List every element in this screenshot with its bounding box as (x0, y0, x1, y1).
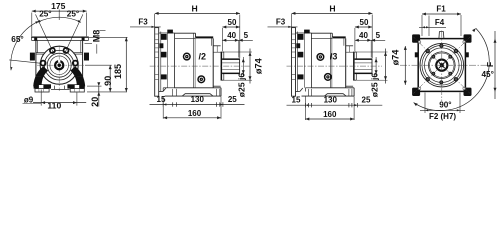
svg-text:110: 110 (47, 101, 61, 111)
view 2: dimension 160 (162, 96, 164, 119)
view 1: dimension 20 (87, 85, 102, 87)
view 4: F dimension right (494, 31, 496, 99)
view 2: input flange slab (155, 28, 159, 97)
view 2: bell section (159, 32, 175, 34)
svg-text:F1: F1 (436, 4, 446, 13)
view 1: horizontal-left ray (9, 60, 41, 63)
view 3: dimension o25 j6 (375, 57, 377, 76)
view 2: output flange o74 slab (221, 52, 223, 80)
view 2: dimension 50 (222, 26, 239, 28)
svg-text:160: 160 (188, 109, 202, 118)
view 4: flange plate outline (418, 39, 465, 92)
view 3: output shaft (355, 58, 372, 60)
view 3: input flange slab (292, 28, 296, 97)
view 3: H dimension (292, 12, 373, 14)
view 1: side rib lines (36, 52, 45, 54)
svg-text:50: 50 (228, 18, 237, 27)
view 4: side tabs (415, 52, 419, 57)
svg-text:/2: /2 (199, 51, 207, 61)
view 1: bottom center box (54, 86, 56, 90)
view 4: F1 dimension (422, 13, 461, 15)
view 4: diagonal centerlines (446, 69, 470, 93)
view 2: main body (175, 32, 196, 34)
view 3: body joint lines (329, 33, 331, 88)
svg-text:H: H (191, 4, 197, 14)
svg-text:5: 5 (376, 31, 381, 40)
view 3: dimension 40 and 5 (355, 39, 385, 41)
svg-text:40: 40 (359, 31, 368, 40)
view 4: concentric circles (420, 43, 464, 87)
view 4: rotation arc (414, 28, 490, 110)
svg-text:25°: 25° (39, 9, 51, 18)
view 4: top and bottom small holes (440, 44, 443, 47)
view 1: mid base line (51, 88, 70, 90)
view 3: oil plug 2 (325, 74, 332, 81)
svg-text:ø74: ø74 (254, 57, 264, 74)
view 1: dimension 185 (89, 36, 128, 38)
view 3: dimension o74 (385, 49, 387, 84)
view 2: oil plug 2 (198, 76, 205, 83)
view 3: output flange o74 slab (353, 52, 355, 80)
view 4: F2 (H7) dimension (424, 93, 426, 114)
view 1: left foot block (34, 84, 51, 88)
view 2: H dimension (155, 12, 240, 14)
view 4: top keyway tab (439, 32, 444, 39)
svg-text:50: 50 (360, 18, 369, 27)
view 2: centerline (150, 65, 250, 67)
svg-text:90°: 90° (439, 101, 451, 110)
view 1: left foot web leg (34, 67, 48, 86)
view 2: input flange bolts black (167, 30, 173, 34)
view 2: dimension o74 (249, 49, 251, 84)
view 1: dimension 90 (85, 64, 112, 66)
view 1: housing body sides (35, 41, 37, 85)
svg-text:130: 130 (324, 96, 338, 105)
view 4: corner lugs (412, 34, 420, 42)
svg-text:F3: F3 (138, 17, 148, 26)
svg-text:160: 160 (323, 110, 337, 119)
view 3: base and feet (304, 88, 306, 92)
view 1: top plate bolt blocks (34, 38, 37, 41)
svg-text:ø9: ø9 (24, 95, 34, 104)
svg-text:ø25 j6: ø25 j6 (237, 73, 247, 98)
svg-text:175: 175 (51, 1, 66, 11)
view 1: housing top plate (32, 37, 89, 38)
view 1: dimension 175 top (32, 10, 87, 12)
svg-text:F: F (485, 62, 495, 67)
view 3: oil plug 1 (317, 54, 324, 61)
view 4: bore black ring with key marks (436, 60, 447, 71)
view 1: dimension 110 (40, 90, 42, 106)
view 1: side lugs black (30, 53, 35, 61)
view 3: bell section (296, 32, 312, 34)
view 2: output bearing boss (213, 45, 220, 47)
svg-text:90: 90 (103, 76, 113, 86)
view 2: dimension 40 and 5 (222, 39, 252, 41)
svg-text:5: 5 (244, 31, 249, 40)
svg-text:F4: F4 (435, 18, 445, 27)
view 3: bottom dimension row 15 130 25 (287, 104, 383, 106)
view 1: 25 deg rays (36, 14, 54, 52)
svg-text:15: 15 (292, 96, 301, 105)
svg-text:15: 15 (157, 95, 166, 104)
svg-text:40: 40 (227, 31, 236, 40)
svg-text:25: 25 (228, 95, 237, 104)
svg-text:65°: 65° (11, 35, 23, 44)
view 2: dimension o25 j6 (242, 57, 244, 76)
view 1: shaft bore black ring (55, 61, 63, 69)
view 2: oil plug 1 (184, 53, 191, 60)
svg-text:ø74: ø74 (390, 49, 400, 66)
view 1: foot pads (35, 89, 49, 92)
view 1: right foot web leg (71, 67, 85, 86)
view 4: o74 dimension shared with view 3 (404, 46, 406, 85)
svg-text:130: 130 (191, 95, 205, 104)
svg-text:/3: /3 (330, 51, 338, 61)
view 3: centerline (287, 65, 383, 67)
svg-text:F2 (H7): F2 (H7) (429, 112, 456, 121)
view 2: body joint lines (193, 33, 195, 88)
view 2: bottom dimension row 15 130 25 (150, 104, 245, 106)
view 1: center crosshair lines (58, 46, 60, 92)
view 2: base and feet (162, 88, 164, 92)
svg-text:45°: 45° (482, 70, 494, 79)
view 4: bolt holes on diagonals (454, 78, 457, 81)
svg-text:25: 25 (362, 96, 371, 105)
view 4: F4 dimension (419, 26, 446, 28)
svg-text:H: H (329, 4, 335, 14)
view 3: foot slots (307, 89, 309, 96)
view 1: 25 deg dimension arc (37, 17, 81, 22)
view 2: foot slots (172, 89, 174, 96)
view 3: dimension 160 (304, 96, 306, 120)
view 3: main body (311, 32, 332, 34)
view 1: four ear bosses (64, 48, 69, 53)
view 3: output bearing boss (346, 45, 353, 47)
svg-text:25°: 25° (67, 9, 79, 18)
view 1: center vertical tick top (58, 10, 60, 21)
view 3: dimension 50 (355, 26, 372, 28)
svg-text:F3: F3 (276, 17, 286, 26)
view 2: output shaft (222, 58, 240, 60)
svg-text:M8: M8 (92, 30, 102, 43)
view 4: centerlines (400, 64, 492, 66)
view 3: input flange bolts black (304, 30, 310, 34)
view 1: central boss circles (40, 46, 78, 84)
svg-text:20: 20 (90, 97, 100, 107)
view 1: right foot block (67, 84, 84, 88)
view 1: feet hole white notches (39, 85, 44, 89)
view 1: lower side ribs (36, 76, 41, 78)
svg-text:ø25 j6: ø25 j6 (369, 73, 379, 98)
svg-text:185: 185 (113, 64, 123, 79)
